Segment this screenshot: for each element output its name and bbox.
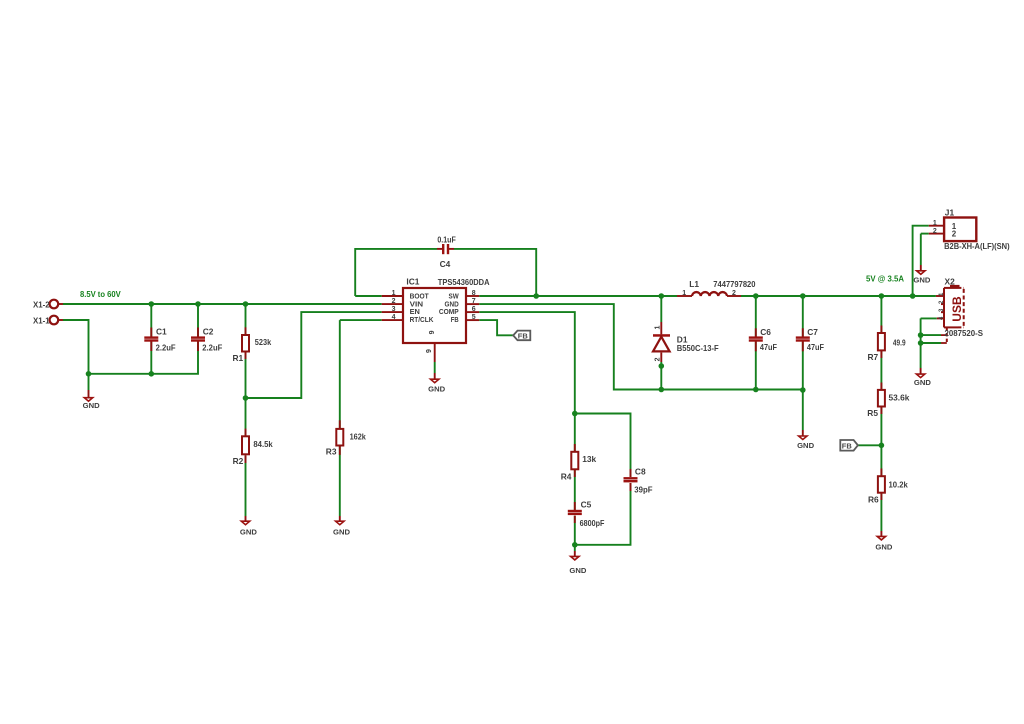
svg-text:4: 4 xyxy=(392,314,396,321)
svg-text:39pF: 39pF xyxy=(634,485,652,495)
svg-text:R4: R4 xyxy=(561,472,572,482)
svg-text:GND: GND xyxy=(914,378,932,387)
svg-text:FB: FB xyxy=(451,315,459,324)
svg-text:2: 2 xyxy=(392,298,396,305)
svg-text:R5: R5 xyxy=(867,408,878,418)
svg-text:C1: C1 xyxy=(156,327,167,337)
svg-text:X1-2: X1-2 xyxy=(33,300,50,310)
svg-text:C5: C5 xyxy=(581,500,592,510)
svg-text:9: 9 xyxy=(426,349,433,353)
svg-text:R3: R3 xyxy=(326,447,337,457)
svg-text:X1-1: X1-1 xyxy=(33,316,50,326)
svg-text:2.2uF: 2.2uF xyxy=(156,342,176,352)
svg-text:C6: C6 xyxy=(760,327,771,337)
svg-text:47uF: 47uF xyxy=(760,342,777,352)
svg-text:R7: R7 xyxy=(868,352,879,362)
svg-text:GND: GND xyxy=(240,528,258,537)
svg-text:TPS54360DDA: TPS54360DDA xyxy=(438,277,490,287)
svg-text:162k: 162k xyxy=(350,432,366,442)
svg-text:GND: GND xyxy=(333,528,351,537)
svg-text:53.6k: 53.6k xyxy=(889,393,910,403)
svg-text:C7: C7 xyxy=(807,327,818,337)
svg-text:J1: J1 xyxy=(945,208,955,218)
svg-text:2: 2 xyxy=(655,357,662,361)
svg-text:B2B-XH-A(LF)(SN): B2B-XH-A(LF)(SN) xyxy=(944,241,1010,251)
svg-text:47uF: 47uF xyxy=(807,342,824,352)
svg-text:USB: USB xyxy=(950,296,964,322)
svg-text:RT/CLK: RT/CLK xyxy=(410,315,434,324)
svg-text:9: 9 xyxy=(429,330,436,334)
svg-text:6: 6 xyxy=(472,306,476,313)
svg-text:7447797820: 7447797820 xyxy=(713,279,756,289)
svg-text:1: 1 xyxy=(933,220,937,227)
svg-text:GND: GND xyxy=(428,385,446,394)
svg-text:R2: R2 xyxy=(233,456,244,466)
svg-text:1: 1 xyxy=(392,290,396,297)
svg-text:R6: R6 xyxy=(868,495,879,505)
svg-text:2: 2 xyxy=(732,290,736,297)
svg-text:13k: 13k xyxy=(582,454,596,464)
svg-text:B550C-13-F: B550C-13-F xyxy=(677,343,719,353)
svg-text:GND: GND xyxy=(913,276,931,285)
svg-text:1: 1 xyxy=(682,290,686,297)
svg-text:2: 2 xyxy=(952,229,957,238)
svg-text:2.2uF: 2.2uF xyxy=(202,342,222,352)
svg-text:C8: C8 xyxy=(635,467,646,477)
svg-text:8: 8 xyxy=(472,290,476,297)
svg-text:2: 2 xyxy=(933,228,937,235)
svg-text:FB: FB xyxy=(842,441,853,450)
svg-text:FB: FB xyxy=(518,331,529,340)
svg-text:523k: 523k xyxy=(255,337,272,347)
svg-text:GND: GND xyxy=(83,401,101,410)
svg-text:2087520-S: 2087520-S xyxy=(945,328,984,338)
svg-text:L1: L1 xyxy=(689,279,699,289)
svg-text:3: 3 xyxy=(392,306,396,313)
svg-text:GND: GND xyxy=(797,441,815,450)
svg-text:GND: GND xyxy=(569,566,587,575)
svg-text:X2: X2 xyxy=(945,276,956,286)
svg-text:R1: R1 xyxy=(233,353,244,363)
svg-text:5: 5 xyxy=(472,314,476,321)
svg-text:1: 1 xyxy=(655,326,662,330)
svg-text:C2: C2 xyxy=(203,327,214,337)
svg-text:8.5V to 60V: 8.5V to 60V xyxy=(80,289,121,299)
svg-text:IC1: IC1 xyxy=(406,277,419,287)
svg-text:5V @ 3.5A: 5V @ 3.5A xyxy=(866,274,904,284)
svg-text:49.9: 49.9 xyxy=(893,338,906,348)
svg-text:7: 7 xyxy=(472,298,476,305)
svg-text:C4: C4 xyxy=(440,259,451,269)
svg-text:6800pF: 6800pF xyxy=(580,518,605,528)
svg-text:84.5k: 84.5k xyxy=(253,439,273,449)
svg-text:10.2k: 10.2k xyxy=(889,480,909,490)
svg-text:GND: GND xyxy=(875,543,893,552)
svg-text:0.1uF: 0.1uF xyxy=(437,234,455,244)
